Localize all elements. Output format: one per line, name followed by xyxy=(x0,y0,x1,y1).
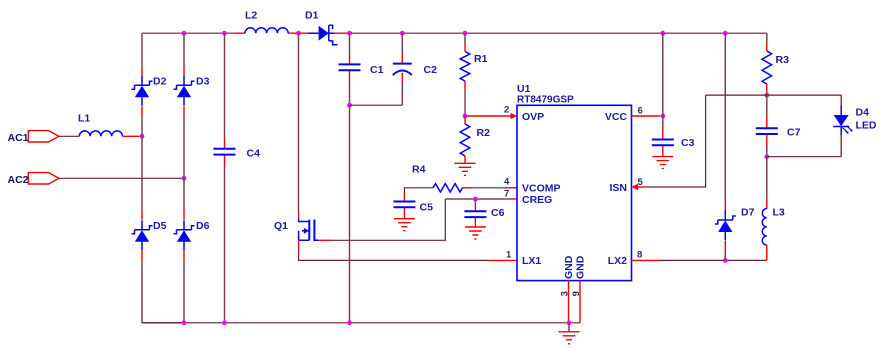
node CREG / C6 xyxy=(473,197,478,202)
resistor R4 xyxy=(433,184,462,192)
ground below R2 xyxy=(455,163,476,175)
svg-text:VCOMP: VCOMP xyxy=(522,182,561,194)
svg-text:7: 7 xyxy=(504,189,509,200)
wire C2 bottom link xyxy=(350,104,403,106)
LED D4 xyxy=(840,95,842,105)
capacitor C4 xyxy=(224,137,226,167)
wire switch node column xyxy=(298,33,300,212)
resistor R2 xyxy=(464,116,466,124)
svg-text:R3: R3 xyxy=(776,54,790,66)
ground main xyxy=(568,323,570,332)
wire R1 top stub xyxy=(464,33,466,42)
svg-text:CREG: CREG xyxy=(522,194,552,206)
node C4 top xyxy=(222,31,227,36)
svg-text:1: 1 xyxy=(506,250,512,261)
diode D1 xyxy=(300,32,348,34)
wire C1 column to bottom rail xyxy=(349,105,351,323)
node AC1 / bridge left column xyxy=(140,134,145,139)
svg-text:GND: GND xyxy=(575,255,587,279)
svg-text:RT8479GSP: RT8479GSP xyxy=(517,95,574,106)
wire R3 top stub xyxy=(766,33,768,42)
diode D6 xyxy=(183,210,185,261)
wire C3 column from rail xyxy=(662,33,664,116)
wire CREG pin 7 xyxy=(511,198,518,200)
svg-text:4: 4 xyxy=(504,177,510,188)
inductor L2 xyxy=(234,32,297,34)
svg-text:LX1: LX1 xyxy=(522,255,541,267)
wire R4 left / C5 top xyxy=(404,188,433,192)
wire Q1 gate to CREG xyxy=(330,199,445,240)
capacitor C5 xyxy=(403,192,405,219)
wire ISN pin 5 xyxy=(632,184,639,191)
svg-text:ISN: ISN xyxy=(609,182,627,194)
capacitor C6 xyxy=(474,199,476,204)
node VCC / C3 xyxy=(660,114,665,119)
wire D7 column xyxy=(724,33,726,201)
svg-text:VCC: VCC xyxy=(605,111,628,123)
svg-text:3: 3 xyxy=(560,291,571,296)
svg-text:D7: D7 xyxy=(741,207,755,219)
svg-text:OVP: OVP xyxy=(522,111,544,123)
svg-text:R2: R2 xyxy=(477,127,491,139)
diode D7 xyxy=(724,201,726,253)
wire bridge left column upper xyxy=(141,33,143,66)
wire bottom rail xyxy=(142,322,580,324)
svg-text:C2: C2 xyxy=(424,64,438,76)
connector AC2 xyxy=(28,173,59,184)
node D7 column top xyxy=(723,31,728,36)
svg-text:GND: GND xyxy=(563,255,575,279)
diode D3 xyxy=(183,66,185,116)
node C2 top xyxy=(400,31,405,36)
wire C4 column upper xyxy=(224,33,226,137)
wire bridge right column middle xyxy=(183,116,185,210)
node C7 bottom / LED cathode xyxy=(764,154,769,159)
capacitor C2 xyxy=(401,82,403,105)
wire VCOMP pin 4 xyxy=(463,187,473,189)
svg-text:C1: C1 xyxy=(370,64,384,76)
wire LED cathode row xyxy=(767,156,841,158)
svg-text:D3: D3 xyxy=(196,76,210,88)
wire C2 top xyxy=(401,33,403,54)
svg-text:U1: U1 xyxy=(517,83,531,95)
wire VCC pin 6 xyxy=(632,115,661,117)
node R3 bottom / ISN xyxy=(764,93,769,98)
wire Q1 source to LX1 xyxy=(299,252,488,261)
svg-text:D4: D4 xyxy=(856,107,870,119)
wire bridge left column middle xyxy=(141,116,143,210)
wire ISN row xyxy=(706,94,842,96)
node R1/R2/OVP xyxy=(463,114,468,119)
wire OVP pin 2 xyxy=(467,115,511,117)
svg-text:2: 2 xyxy=(504,105,509,116)
wire C1 column upper xyxy=(349,33,351,54)
inductor L3 xyxy=(766,200,768,257)
node R1 top xyxy=(463,31,468,36)
wire top rail left segment xyxy=(142,32,234,34)
wire C1 bottom to node xyxy=(349,81,351,106)
svg-text:L1: L1 xyxy=(78,113,90,125)
wire LX2 pin 8 xyxy=(632,259,660,261)
wire L3 column xyxy=(766,157,768,200)
node switch junction L2/D1 xyxy=(296,31,301,36)
resistor R3 xyxy=(766,43,768,52)
svg-text:C5: C5 xyxy=(420,202,434,214)
svg-text:9: 9 xyxy=(571,291,582,296)
diode D2 xyxy=(141,66,143,116)
node C1/C2 bottom xyxy=(347,103,352,108)
transistor Q1 xyxy=(298,212,300,218)
node bottom rail C4 column xyxy=(222,320,227,325)
svg-text:C4: C4 xyxy=(247,148,261,160)
ground below C5 xyxy=(394,219,415,231)
node bottom rail ground xyxy=(567,320,572,325)
ground below C3 xyxy=(652,157,673,169)
wire AC1 to L1 xyxy=(59,135,79,137)
svg-text:5: 5 xyxy=(638,177,644,188)
diode D5 xyxy=(141,210,143,261)
svg-text:C6: C6 xyxy=(491,207,505,219)
op-amp U1 RT8479GSP box xyxy=(517,105,632,280)
svg-text:AC1: AC1 xyxy=(8,132,29,144)
wire R1 to OVP node xyxy=(464,90,466,116)
wire bridge right column upper xyxy=(183,33,185,66)
capacitor C3 xyxy=(662,116,664,125)
svg-text:R1: R1 xyxy=(474,53,488,65)
svg-text:Q1: Q1 xyxy=(274,220,288,232)
node LX2 / D7 anode xyxy=(723,258,728,263)
svg-text:AC2: AC2 xyxy=(8,174,29,186)
node bottom rail C1 column xyxy=(347,320,352,325)
node bottom rail D3 D6 column xyxy=(182,320,187,325)
svg-text:D2: D2 xyxy=(153,76,167,88)
svg-text:C7: C7 xyxy=(787,127,801,139)
svg-text:LED: LED xyxy=(856,120,877,132)
svg-text:D5: D5 xyxy=(153,220,167,232)
node AC2 / D3 D6 column xyxy=(182,176,187,181)
wire top rail right segment xyxy=(351,32,767,34)
svg-text:6: 6 xyxy=(638,106,643,117)
wire C4 column lower xyxy=(224,167,226,323)
pin GND 9 stub xyxy=(579,281,581,323)
capacitor C7 xyxy=(766,95,768,116)
pin GND 3 stub xyxy=(568,281,570,323)
svg-text:L3: L3 xyxy=(773,207,785,219)
svg-text:D6: D6 xyxy=(196,220,210,232)
svg-text:L2: L2 xyxy=(245,10,257,22)
connector AC1 xyxy=(28,131,59,142)
node D1 cathode / C1 top xyxy=(347,31,352,36)
svg-text:LX2: LX2 xyxy=(608,255,627,267)
capacitor C1 xyxy=(349,55,351,81)
svg-text:8: 8 xyxy=(637,250,642,261)
svg-text:C3: C3 xyxy=(681,137,695,149)
node D3 top xyxy=(182,31,187,36)
node C3 column top xyxy=(660,31,665,36)
svg-text:D1: D1 xyxy=(305,10,319,22)
svg-text:R4: R4 xyxy=(412,164,426,176)
wire bridge right column lower xyxy=(183,261,185,323)
inductor L1 xyxy=(79,131,122,136)
wire bridge left column lower xyxy=(142,261,184,323)
ground below C6 xyxy=(465,227,486,239)
wire AC2 to bridge xyxy=(59,177,184,179)
resistor R1 xyxy=(464,43,466,52)
